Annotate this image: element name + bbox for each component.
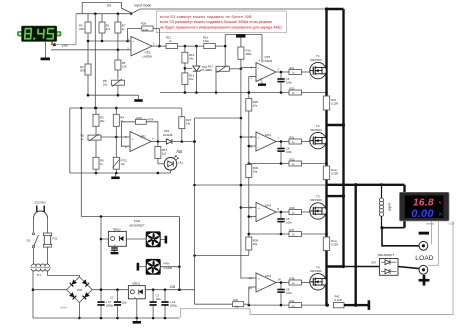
wire R10 to R17 node	[215, 45, 225, 47]
wire R39 bottom to sense line	[193, 254, 249, 257]
svg-text:1к5: 1к5	[162, 152, 167, 156]
svg-text:-: -	[132, 147, 133, 151]
capacitor C4 100n	[277, 140, 292, 163]
wire drain branch T3	[327, 195, 346, 198]
wire main top +12V rail	[76, 9, 327, 14]
label 12V node	[170, 285, 176, 289]
svg-text:R38: R38	[290, 276, 295, 280]
led HL1 hot indicator	[158, 149, 184, 173]
svg-text:input mode: input mode	[135, 4, 152, 8]
resistor R4	[113, 108, 124, 126]
svg-text:Rток: Rток	[331, 239, 338, 243]
svg-text:R28: R28	[141, 22, 147, 26]
capacitor C8 100n	[277, 281, 292, 305]
resistor R13	[182, 73, 195, 93]
wire stage3 inverting input	[249, 216, 256, 218]
resistor R16	[238, 47, 252, 59]
op-amp OP1 LM358	[126, 37, 155, 59]
svg-text:FAN: FAN	[134, 219, 140, 223]
resistor R36	[276, 206, 310, 215]
wire inverting ladder column	[248, 77, 251, 306]
svg-text:0.22R: 0.22R	[331, 102, 338, 106]
svg-text:LOAD: LOAD	[415, 255, 434, 262]
wire stage4 noninverting input	[241, 277, 256, 279]
wire 12V feed to top rail	[55, 14, 77, 45]
svg-text:120к: 120к	[203, 39, 210, 43]
diode VD2 1N4148	[163, 129, 196, 144]
wire temp limit link	[195, 117, 241, 119]
svg-text:0.00: 0.00	[411, 208, 434, 220]
wire temp bottom rail	[70, 172, 171, 175]
svg-text:-: -	[258, 145, 259, 149]
svg-text:1N4148: 1N4148	[163, 133, 173, 137]
ground temp section	[111, 173, 119, 179]
node rail Q	[94, 12, 97, 15]
svg-text:100п: 100п	[286, 80, 292, 84]
svg-text:hot: hot	[177, 149, 184, 154]
svg-text:10к: 10к	[253, 170, 258, 174]
resistor R32 current feedback	[248, 157, 328, 166]
wire stage3 noninverting input	[241, 207, 256, 209]
wire temp section top rail	[70, 107, 182, 110]
wire column R9	[87, 14, 89, 64]
wire display gnd to OP1 pin2	[51, 49, 131, 51]
svg-text:CASE: CASE	[164, 266, 172, 270]
capacitor C6 100n	[277, 71, 292, 93]
svg-text:390к: 390к	[246, 52, 253, 56]
svg-text:измер: измер	[426, 222, 435, 226]
svg-text:+: +	[258, 277, 260, 281]
wire OP2 output	[151, 140, 166, 143]
wire shunt to meter bottom	[380, 226, 404, 229]
wire stage2 inverting input	[249, 145, 256, 147]
wire drain branch T2	[327, 123, 346, 126]
svg-text:100п: 100п	[286, 291, 292, 295]
wire R11 to R10	[178, 45, 204, 48]
wire reg2 out to 12V node	[145, 288, 194, 291]
wire fan drive column	[193, 118, 196, 304]
node display output	[53, 43, 56, 46]
svg-text:OP2: OP2	[265, 133, 271, 137]
svg-text:78R12: 78R12	[113, 228, 122, 232]
svg-text:0.22R: 0.22R	[335, 298, 342, 302]
label FAN CASE	[164, 261, 172, 270]
wire stage1 noninverting input	[241, 67, 256, 69]
svg-text:R31: R31	[290, 135, 295, 139]
wire R5 to R9b	[95, 140, 97, 157]
capacitor C7 1000u	[97, 290, 113, 318]
wire meter drop	[403, 185, 405, 228]
wire to OP1 noninverting input	[87, 40, 128, 43]
ground left rail	[134, 95, 142, 102]
wire R2 to gnd rail	[87, 75, 89, 95]
wire column Q 12V feed to temp section	[94, 14, 96, 108]
svg-text:R42: R42	[335, 295, 340, 299]
wire R28 feedback loop	[128, 29, 160, 47]
wire control voltage bus	[240, 59, 243, 278]
resistor R9 low	[93, 157, 104, 173]
svg-text:R41: R41	[290, 299, 295, 303]
wire gray meter supply long	[60, 221, 453, 318]
svg-text:+ C4: + C4	[170, 300, 176, 304]
fuse FU1	[43, 232, 58, 264]
resistor R3	[93, 108, 105, 126]
wire R6 to R8	[117, 70, 119, 80]
label measure wires	[426, 222, 454, 226]
svg-text:R36: R36	[290, 206, 295, 210]
svg-text:R19: R19	[137, 116, 143, 120]
wire 12V drop to fan section	[80, 108, 82, 217]
wire gray meter to load minus	[431, 221, 433, 244]
svg-text:R23: R23	[331, 98, 336, 102]
svg-text:12В: 12В	[62, 43, 69, 47]
svg-text:0.22R: 0.22R	[331, 243, 338, 247]
potentiometer R5	[81, 134, 102, 142]
svg-text:78R12: 78R12	[132, 282, 141, 286]
wire drain branch T1 top	[325, 7, 344, 10]
wire R19 to output	[146, 122, 158, 142]
wire bridge plus rail	[92, 288, 128, 291]
capacitor C2 100n	[110, 290, 128, 318]
wire column R1	[101, 14, 103, 22]
svg-text:100п: 100п	[286, 150, 292, 154]
svg-text:V: V	[439, 200, 442, 205]
wire to load minus	[382, 228, 419, 246]
wire R3 to R5	[95, 126, 97, 135]
resistor R35 0.22R	[323, 237, 338, 251]
svg-text:OP4: OP4	[265, 274, 271, 278]
resistor R40	[195, 298, 249, 309]
wire R7 to pin2 net	[117, 33, 120, 51]
svg-text:HL1: HL1	[179, 161, 184, 165]
svg-text:NTC1: NTC1	[121, 159, 128, 163]
plug AC	[34, 206, 48, 233]
wire red positive stub from display	[51, 42, 53, 46]
label LOAD	[415, 255, 434, 262]
wire bottom rail	[33, 317, 179, 320]
svg-text:FAN: FAN	[164, 261, 170, 265]
op-amp U3 LM324 stage 3	[249, 203, 280, 222]
wire OP1 out	[152, 45, 166, 47]
svg-text:-: -	[258, 216, 259, 220]
wire OP2 inverting feedback	[122, 122, 136, 146]
svg-text:IRFP460: IRFP460	[311, 58, 322, 62]
resistor R7	[115, 22, 126, 33]
svg-text:VD2: VD2	[164, 129, 170, 133]
wire display minus lead	[45, 42, 47, 58]
svg-text:C2: C2	[110, 296, 114, 300]
bridge rectifier VD6	[67, 277, 93, 303]
svg-text:LM324: LM324	[264, 59, 273, 63]
svg-text:-: -	[133, 49, 134, 53]
svg-text:+: +	[133, 39, 135, 43]
wire R8 to gnd rail	[117, 85, 119, 95]
svg-text:если S3 замкнут можно подавать: если S3 замкнут можно подавать не более …	[160, 15, 252, 19]
svg-text:OP3: OP3	[265, 204, 271, 208]
wire fan right edge 12V	[178, 217, 181, 292]
svg-text:1000µ: 1000µ	[106, 303, 114, 307]
svg-text:+: +	[258, 136, 260, 140]
svg-text:13: 13	[249, 286, 253, 290]
svg-text:14: 14	[278, 278, 282, 282]
+12V supply bar	[236, 34, 246, 47]
svg-text:IRFP460: IRFP460	[311, 269, 322, 273]
diode VD1 TL431	[193, 46, 210, 92]
wire temp section left edge	[69, 108, 71, 173]
resistor R31	[276, 135, 310, 144]
svg-text:12К: 12К	[122, 65, 127, 69]
bus A source column	[325, 9, 327, 305]
wire left ground rail	[87, 94, 139, 97]
svg-text:10к: 10к	[253, 104, 258, 108]
resistor R19 470K	[135, 116, 153, 125]
terminal LOAD minus	[419, 241, 428, 250]
svg-text:R37: R37	[290, 228, 295, 232]
svg-text:+: +	[258, 206, 260, 210]
wire shunt top	[380, 183, 383, 198]
node R12 R13	[184, 63, 193, 73]
resistor R37 current feedback	[248, 228, 328, 237]
regulator 78R12 fan mosfet	[108, 228, 126, 247]
op-amp U4 LM324 stage 4	[249, 273, 281, 292]
wire OP1 inputs	[128, 41, 131, 50]
op-amp U1 LM324 stage 1	[250, 55, 279, 86]
resistor R22 current feedback	[248, 86, 328, 95]
wire V+ to LM324 pin4	[225, 35, 262, 63]
terminal LOAD plus	[419, 265, 428, 274]
wire bridge minus	[78, 303, 81, 320]
op-amp U2 LM324 stage 2	[250, 132, 279, 151]
svg-text:1W: 1W	[186, 122, 191, 126]
op-amp OP2 LM358 second half	[125, 132, 154, 152]
diode VD7 SBL3040PT	[344, 253, 420, 275]
resistor R30 10k ladder	[246, 165, 259, 178]
note box border	[156, 11, 286, 33]
svg-text:FU1: FU1	[53, 237, 58, 241]
resistor R42 0.22R	[326, 295, 356, 308]
svg-text:S2: S2	[27, 239, 31, 243]
wire column R7	[117, 14, 119, 22]
ground under display	[41, 58, 50, 61]
resistor R14	[155, 142, 168, 159]
regulator 78R12 main	[128, 282, 145, 299]
thermistor NTC1	[112, 157, 128, 173]
svg-text:Rток: Rток	[331, 168, 338, 172]
svg-text:+ C7: + C7	[106, 300, 112, 304]
svg-text:12В: 12В	[170, 285, 176, 289]
svg-text:10к: 10к	[253, 242, 258, 246]
svg-text:если S3 разомкнут можно подава: если S3 разомкнут можно подавать больше …	[160, 20, 272, 24]
ground psu	[133, 318, 141, 324]
svg-text:470К: 470К	[143, 29, 149, 32]
svg-text:0.22R: 0.22R	[331, 172, 338, 176]
wire to bridge W	[33, 289, 67, 291]
resistor R25 10k ladder	[246, 99, 259, 112]
shunt resistor	[379, 198, 391, 216]
transistor T3 IRFP460	[310, 195, 326, 220]
svg-text:-: -	[258, 286, 259, 290]
resistor R21	[276, 66, 310, 75]
svg-text:IRFP460: IRFP460	[311, 198, 322, 202]
svg-text:MOSFEET: MOSFEET	[130, 224, 145, 228]
svg-text:R32: R32	[290, 157, 295, 161]
svg-text:шунт: шунт	[388, 202, 392, 211]
svg-text:100п: 100п	[286, 220, 292, 224]
minus symbol	[419, 232, 429, 235]
resistor R12	[182, 46, 195, 63]
wire secondary right to bridge	[48, 271, 80, 277]
fan case cooler	[137, 259, 181, 275]
svg-text:100п: 100п	[156, 298, 162, 301]
resistor R10	[203, 36, 215, 49]
svg-text:+: +	[258, 66, 260, 70]
capacitor C5 100n	[277, 211, 292, 234]
red note text about S3 modes	[160, 15, 283, 30]
svg-text:SBL3040PT: SBL3040PT	[378, 253, 395, 257]
svg-text:S3: S3	[107, 4, 111, 8]
svg-text:не будет правильного информиро: не будет правильного информирования напр…	[160, 26, 283, 30]
digital meter module	[400, 192, 450, 221]
svg-text:LM358: LM358	[143, 55, 153, 59]
wire stage4 inverting input	[249, 286, 256, 288]
wire secondary left	[32, 271, 35, 318]
capacitor C4 1000u	[161, 290, 177, 318]
transformer Tr1	[30, 264, 51, 277]
svg-text:100п: 100п	[122, 302, 128, 305]
label 220 VAC	[35, 201, 46, 205]
transistor T1 IRFP460	[310, 54, 326, 79]
wire R17 left to gnd rail	[215, 69, 217, 93]
svg-text:R40: R40	[233, 298, 239, 302]
wire terminal stub	[356, 300, 371, 310]
resistor R6	[115, 50, 127, 70]
wire R17 to control bus	[229, 68, 242, 71]
resistor R15	[179, 108, 192, 142]
svg-text:470К: 470К	[148, 118, 154, 122]
label FAN MOSFET	[130, 219, 145, 228]
wire sense thin segment	[195, 184, 327, 187]
svg-text:22R: 22R	[79, 27, 84, 31]
svg-text:4к7: 4к7	[106, 27, 111, 31]
wire 12V supply riser	[178, 217, 180, 290]
fan mosfet cooler	[126, 231, 167, 247]
wire reg1 feed	[100, 217, 109, 292]
svg-text:IRFP460: IRFP460	[311, 128, 322, 132]
potentiometer R17	[208, 65, 229, 73]
plus symbol	[419, 275, 430, 286]
switch S3	[107, 4, 133, 15]
svg-text:1000µ: 1000µ	[170, 303, 178, 307]
svg-text:VD6: VD6	[77, 288, 83, 292]
wire S3 bypass rail	[82, 3, 121, 14]
resistor R11	[166, 36, 178, 49]
transistor T2 IRFP460	[310, 124, 326, 149]
resistor R38	[276, 276, 310, 285]
bus C	[354, 185, 357, 307]
svg-text:VD7: VD7	[371, 261, 377, 265]
resistor R41 current feedback	[248, 299, 328, 308]
wire stage1 inverting input	[249, 76, 256, 78]
svg-text:220 VAC: 220 VAC	[35, 201, 46, 205]
label 12V at display	[62, 43, 69, 47]
svg-text:Тr1: Тr1	[37, 273, 42, 277]
svg-text:+: +	[132, 137, 134, 141]
label input mode	[135, 4, 152, 8]
svg-text:R22: R22	[290, 86, 295, 90]
potentiometer R8	[103, 79, 125, 87]
svg-text:OP2: OP2	[140, 134, 146, 138]
resistor R39 10k ladder	[246, 237, 259, 250]
capacitor C3 100n	[150, 290, 162, 318]
wire R4 to NTC	[115, 126, 117, 157]
resistor R29 0.22R	[323, 166, 338, 180]
wire lower gnd rail LM358 section	[160, 91, 249, 94]
transistor T4 IRFP460	[310, 265, 326, 290]
svg-text:R21: R21	[290, 66, 295, 70]
wire divider to op2	[101, 136, 130, 139]
7-segment voltmeter display module showing 8.45	[18, 26, 62, 41]
wire reg2 gnd	[136, 299, 138, 318]
wire shunt bottom	[381, 216, 383, 228]
wire sense line to shunt	[327, 183, 405, 186]
wire setpoint vertical	[224, 35, 227, 66]
node OP1 output	[158, 45, 161, 48]
switch S2	[27, 233, 39, 264]
wire fan section top rail	[81, 215, 179, 218]
svg-text:2R2: 2R2	[80, 69, 86, 73]
resistor R1	[99, 22, 111, 33]
wire stage2 noninverting input	[241, 136, 256, 138]
node rail R7	[117, 12, 120, 15]
capacitor reg1 gnd	[111, 246, 119, 254]
resistor R28 feedback	[141, 22, 153, 33]
svg-text:16.8: 16.8	[413, 198, 434, 209]
bus B drain bus	[342, 9, 344, 267]
wire drain branch T4	[327, 265, 346, 268]
resistor R23 0.22R	[323, 96, 338, 110]
wire R1 bottom	[101, 33, 103, 41]
resistor R9	[79, 22, 91, 33]
wire gray meter to load plus	[428, 221, 438, 265]
resistor R2	[80, 64, 91, 75]
